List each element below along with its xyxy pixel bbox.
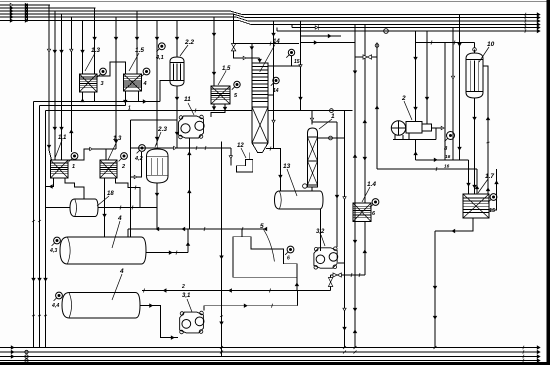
heat exchanger 1.5 (123, 74, 141, 91)
svg-text:1: 1 (72, 164, 75, 170)
label 1.7 (478, 173, 494, 193)
svg-text:1: 1 (128, 106, 131, 112)
box5 bottom stub (295, 277, 298, 290)
svg-text:4: 4 (117, 215, 122, 222)
label 5 hx16 (234, 93, 238, 99)
label 4.4 (51, 303, 59, 309)
drop x137 (135, 11, 138, 74)
right border bar (547, 0, 550, 365)
svg-text:2.2: 2.2 (184, 39, 194, 46)
column14 outlet wire (266, 147, 282, 191)
svg-text:1,1: 1,1 (58, 135, 67, 141)
svg-text:1.4: 1.4 (367, 181, 376, 188)
svg-text:13: 13 (283, 163, 291, 170)
compressor base (393, 128, 436, 140)
pipe line 3 right (230, 11, 537, 15)
pump 11 (179, 115, 205, 139)
wire y148 (131, 146, 231, 150)
label 15 hx17 (489, 208, 496, 214)
drum4b outlet (140, 304, 178, 339)
pipe line 6 left (0, 20, 239, 22)
svg-text:12: 12 (237, 143, 244, 149)
drop x54.8 (53, 11, 56, 160)
vertical x364.8 (363, 25, 366, 204)
label 8 (444, 146, 448, 152)
valve drop x233.6 (231, 14, 259, 60)
valve y57 (355, 55, 377, 59)
hx16 bottom left pipe (212, 104, 215, 111)
pump31 outlet (204, 304, 298, 311)
box5 feed (241, 229, 243, 237)
pipe line 5 right (236, 17, 537, 21)
drop x82.5 top (81, 21, 84, 74)
wire y275 (331, 273, 365, 277)
svg-text:1.5: 1.5 (135, 47, 144, 54)
outlet arrows top right (525, 13, 540, 33)
label 4 (143, 81, 147, 87)
drop x49 (47, 5, 51, 160)
svg-text:1,3: 1,3 (113, 136, 122, 142)
drop x94.6 top (93, 8, 96, 74)
label 4.1 (155, 55, 164, 61)
hx17 bottom outlet (435, 218, 473, 233)
column14 feed b (258, 58, 261, 63)
nozzle column1 bottom (303, 184, 307, 188)
svg-text:2: 2 (181, 284, 185, 290)
svg-text:11: 11 (184, 96, 191, 103)
bridge HX11-HX13b (68, 147, 116, 160)
wire y110.6 mid (268, 109, 352, 113)
vessel22 bottom pipe (175, 86, 178, 148)
hx16 bottom right pipe (211, 104, 227, 117)
left vertical x39.5 (38, 106, 41, 348)
vessel23 side feed (131, 152, 142, 179)
top border line (0, 1, 550, 3)
bottom border bar (0, 362, 550, 365)
hx11 to drum18 pipe (65, 178, 84, 199)
compressor casing (406, 122, 432, 134)
drum18 right pipe (98, 206, 157, 210)
vertical x337 (335, 122, 338, 247)
column14 gas line (268, 65, 291, 67)
bottom arrows right (523, 346, 540, 363)
wire y42.5 left (301, 41, 356, 44)
label 12 (237, 143, 246, 158)
svg-text:4,1: 4,1 (155, 55, 164, 61)
drum18 left pipe (46, 207, 71, 209)
wire y122 tee (312, 121, 337, 123)
drum4a outlet riser (186, 229, 189, 253)
svg-text:3: 3 (101, 81, 104, 87)
wire y290.5 (142, 289, 331, 293)
hx15 bottom left pipe (124, 91, 127, 105)
drop x157 to vessel23 (155, 21, 158, 146)
pump 3.1 (180, 311, 204, 334)
gauge 4.2 (137, 145, 146, 154)
bottom pipe 4 (0, 360, 537, 362)
wire y159.8 (416, 154, 469, 161)
svg-text:4,3: 4,3 (49, 248, 57, 254)
svg-text:1.7: 1.7 (485, 173, 494, 180)
label 11 (184, 96, 194, 115)
heat exchanger 1.4 (353, 203, 371, 222)
vessel10 side pipe (483, 66, 490, 194)
drop x214 to hx16 (212, 17, 215, 86)
heat exchanger 1.6 (211, 86, 230, 104)
pipe line 3 left (0, 10, 230, 12)
heat exchanger 1.1 (51, 160, 69, 178)
label 4.2 (134, 156, 143, 162)
drum 18 (70, 199, 98, 217)
wire y36 stub (301, 34, 342, 37)
label 3 (101, 81, 104, 87)
svg-text:3,2: 3,2 (316, 229, 325, 235)
gauge box5 (285, 246, 294, 261)
gauge drum4b (54, 292, 63, 301)
label 1 column (319, 113, 335, 129)
valve vertical v3 (328, 275, 332, 291)
gauge at HX1.1 (69, 153, 78, 162)
heat exchanger 1.7 (463, 194, 489, 218)
svg-text:1.3: 1.3 (91, 47, 100, 54)
header y101.5 (34, 100, 161, 103)
label g 15 (294, 59, 300, 65)
label 1.5 (129, 47, 144, 71)
label 18 (97, 191, 114, 206)
wire y43.6 manifold (234, 42, 300, 46)
pump11 inlet wire (131, 119, 178, 121)
label 2.3 (155, 126, 167, 147)
bottom pipe 2 (0, 351, 537, 353)
column1 riser (310, 111, 313, 125)
vessel23 bottom pipe (155, 183, 158, 229)
pipe line 8 right (277, 28, 537, 32)
pipe line 4 right (233, 14, 537, 18)
svg-text:6: 6 (287, 256, 290, 262)
hx11 bottom pipe (46, 178, 54, 188)
vertical x435 (433, 231, 436, 349)
hx14 lower pipe x364.8 (363, 222, 366, 276)
pipe line 6 right (239, 21, 537, 25)
bottom pipe 1 (0, 347, 537, 349)
pot12 feed drop (229, 148, 232, 166)
vertical x344.5 (343, 111, 346, 354)
svg-text:18: 18 (107, 191, 114, 197)
vessel10 feed (474, 43, 476, 48)
label drum4b (112, 268, 124, 300)
pump11 suction riser (188, 138, 191, 229)
label 2 (121, 164, 125, 170)
left vertical x45.5 (44, 111, 47, 348)
bottom valve circles (25, 350, 28, 362)
pipe line 7 right (292, 25, 537, 28)
svg-text:2.3: 2.3 (157, 126, 167, 133)
wire column1 y138 (318, 136, 345, 140)
label 1.3 (85, 47, 100, 71)
label 3.1 (182, 293, 192, 312)
wire y66 ext (291, 65, 301, 67)
svg-text:1,5: 1,5 (222, 66, 231, 72)
label 22 (181, 284, 185, 290)
label 6 (372, 211, 376, 217)
heat exchanger 1.3 (79, 74, 97, 92)
gauge top center (286, 49, 294, 66)
compressor feed b (425, 31, 428, 124)
gauge at HX1.5 (141, 68, 150, 77)
drum13 bottom outlet (319, 209, 321, 251)
svg-text:4: 4 (143, 81, 147, 87)
svg-text:15: 15 (489, 208, 496, 214)
hx13 bottom left pipe (81, 92, 84, 102)
column14 feed a (250, 44, 253, 63)
label 1.6 (218, 66, 231, 85)
pipe line 4 left (0, 13, 233, 15)
hx13b bottom stairs (116, 178, 140, 208)
svg-text:16: 16 (444, 164, 450, 170)
hx15 to vessel22 pipe (137, 91, 139, 101)
column 14 (252, 63, 268, 152)
label 1.4 (362, 181, 376, 202)
drum 4a (60, 237, 146, 264)
column 1 (308, 128, 318, 187)
column1 bottom pipe (311, 187, 313, 191)
drop x71.3 (70, 17, 73, 152)
vertical x355 (353, 25, 356, 354)
drum4a outlet (146, 251, 188, 255)
pipe feed line 2 (0, 7, 96, 9)
label 1.1 (55, 135, 67, 158)
label 1.3b (108, 136, 122, 160)
compressor body (391, 121, 405, 135)
svg-text:4,4: 4,4 (51, 303, 59, 309)
inlet arrows second (25, 3, 28, 22)
pipe feed line 1 (0, 4, 50, 6)
drop x177 to vessel22 (175, 21, 178, 54)
gauge at HX1.7 (488, 194, 497, 203)
svg-text:14: 14 (273, 39, 280, 45)
svg-text:2: 2 (401, 95, 406, 102)
label 14 (260, 39, 281, 72)
bottom arrows left (11, 346, 14, 358)
label 4.3 (49, 248, 57, 254)
svg-text:2: 2 (121, 164, 125, 170)
valve circle line8 (384, 29, 389, 34)
vessel 10 (466, 48, 483, 98)
vessel10 bottom pipe (473, 98, 476, 194)
hx17 outlet right (489, 169, 498, 210)
vertical x459.5 (458, 15, 461, 160)
hx13b bottom pipe x104 (103, 178, 106, 237)
gauge at HX1.6 (232, 81, 240, 89)
hx17 inlet b (475, 169, 478, 194)
box 5 (233, 237, 297, 278)
drop x116 (114, 17, 117, 149)
gauge 4.1 (156, 43, 165, 52)
wire y42.5 right (416, 41, 475, 45)
compressor shaft (432, 126, 445, 129)
pump31 outlet link (297, 291, 299, 306)
label 2.2 (180, 39, 194, 56)
drum4a feed (127, 229, 129, 237)
header y110.6 (46, 106, 253, 113)
column14 cone outlet (248, 152, 250, 159)
compressor outlet down (414, 140, 417, 160)
pot 12 (236, 160, 252, 172)
svg-text:3,1: 3,1 (182, 293, 191, 299)
vertical x130.6 (130, 120, 132, 237)
pump32 outlet (338, 262, 345, 264)
vessel 2.3 (147, 146, 169, 184)
heat exchanger 1.3b (100, 160, 117, 178)
svg-text:10: 10 (487, 41, 495, 48)
drop x273.5 (272, 21, 275, 149)
pipe line 5 left (0, 16, 236, 18)
wire y169 (377, 164, 477, 172)
svg-text:4: 4 (119, 268, 124, 275)
label 3.2 (316, 229, 325, 246)
gauge drum4a (52, 237, 61, 246)
riser x160 to vessel22 (160, 81, 170, 102)
vessel 2.2 (170, 54, 184, 87)
gauge at HX1.3 (98, 68, 107, 77)
svg-text:14: 14 (273, 88, 279, 94)
drop x61.5 (60, 14, 63, 160)
gauge at HX1.3b (119, 153, 128, 162)
vertical x221.5 (220, 142, 223, 357)
column14 tray tap (268, 94, 274, 96)
inlet arrows first (10, 3, 13, 22)
label 13 (283, 163, 297, 196)
drum 4b (62, 293, 140, 319)
hx13 bottom right pipe (94, 92, 96, 102)
gauge 8 (445, 132, 455, 142)
label drum4a (112, 215, 122, 248)
gauge at HX1.4 (370, 199, 379, 208)
header y105.5 (40, 105, 126, 107)
drop x300.5 (299, 21, 302, 111)
pump 3.2 (314, 247, 338, 269)
left vertical x33.5 (32, 102, 35, 348)
hx17 inlet a (467, 160, 470, 194)
bridge HX13-HX15 (97, 62, 126, 76)
vertical x453 (451, 28, 454, 160)
vertical x445 (444, 43, 446, 160)
label 2 compressor (401, 95, 412, 120)
gauge column14 upper (271, 77, 279, 94)
flow marker line7 (315, 25, 318, 30)
drum 13 (275, 191, 324, 209)
label 1 (72, 164, 75, 170)
svg-text:15: 15 (294, 59, 300, 65)
label 10 (479, 41, 495, 62)
vertical x377 (375, 43, 379, 170)
compressor feed a (414, 31, 417, 122)
svg-text:16: 16 (445, 154, 451, 160)
wire y229 (128, 227, 267, 231)
bottom pipe 3 (0, 356, 537, 358)
label 5 box (260, 223, 274, 262)
